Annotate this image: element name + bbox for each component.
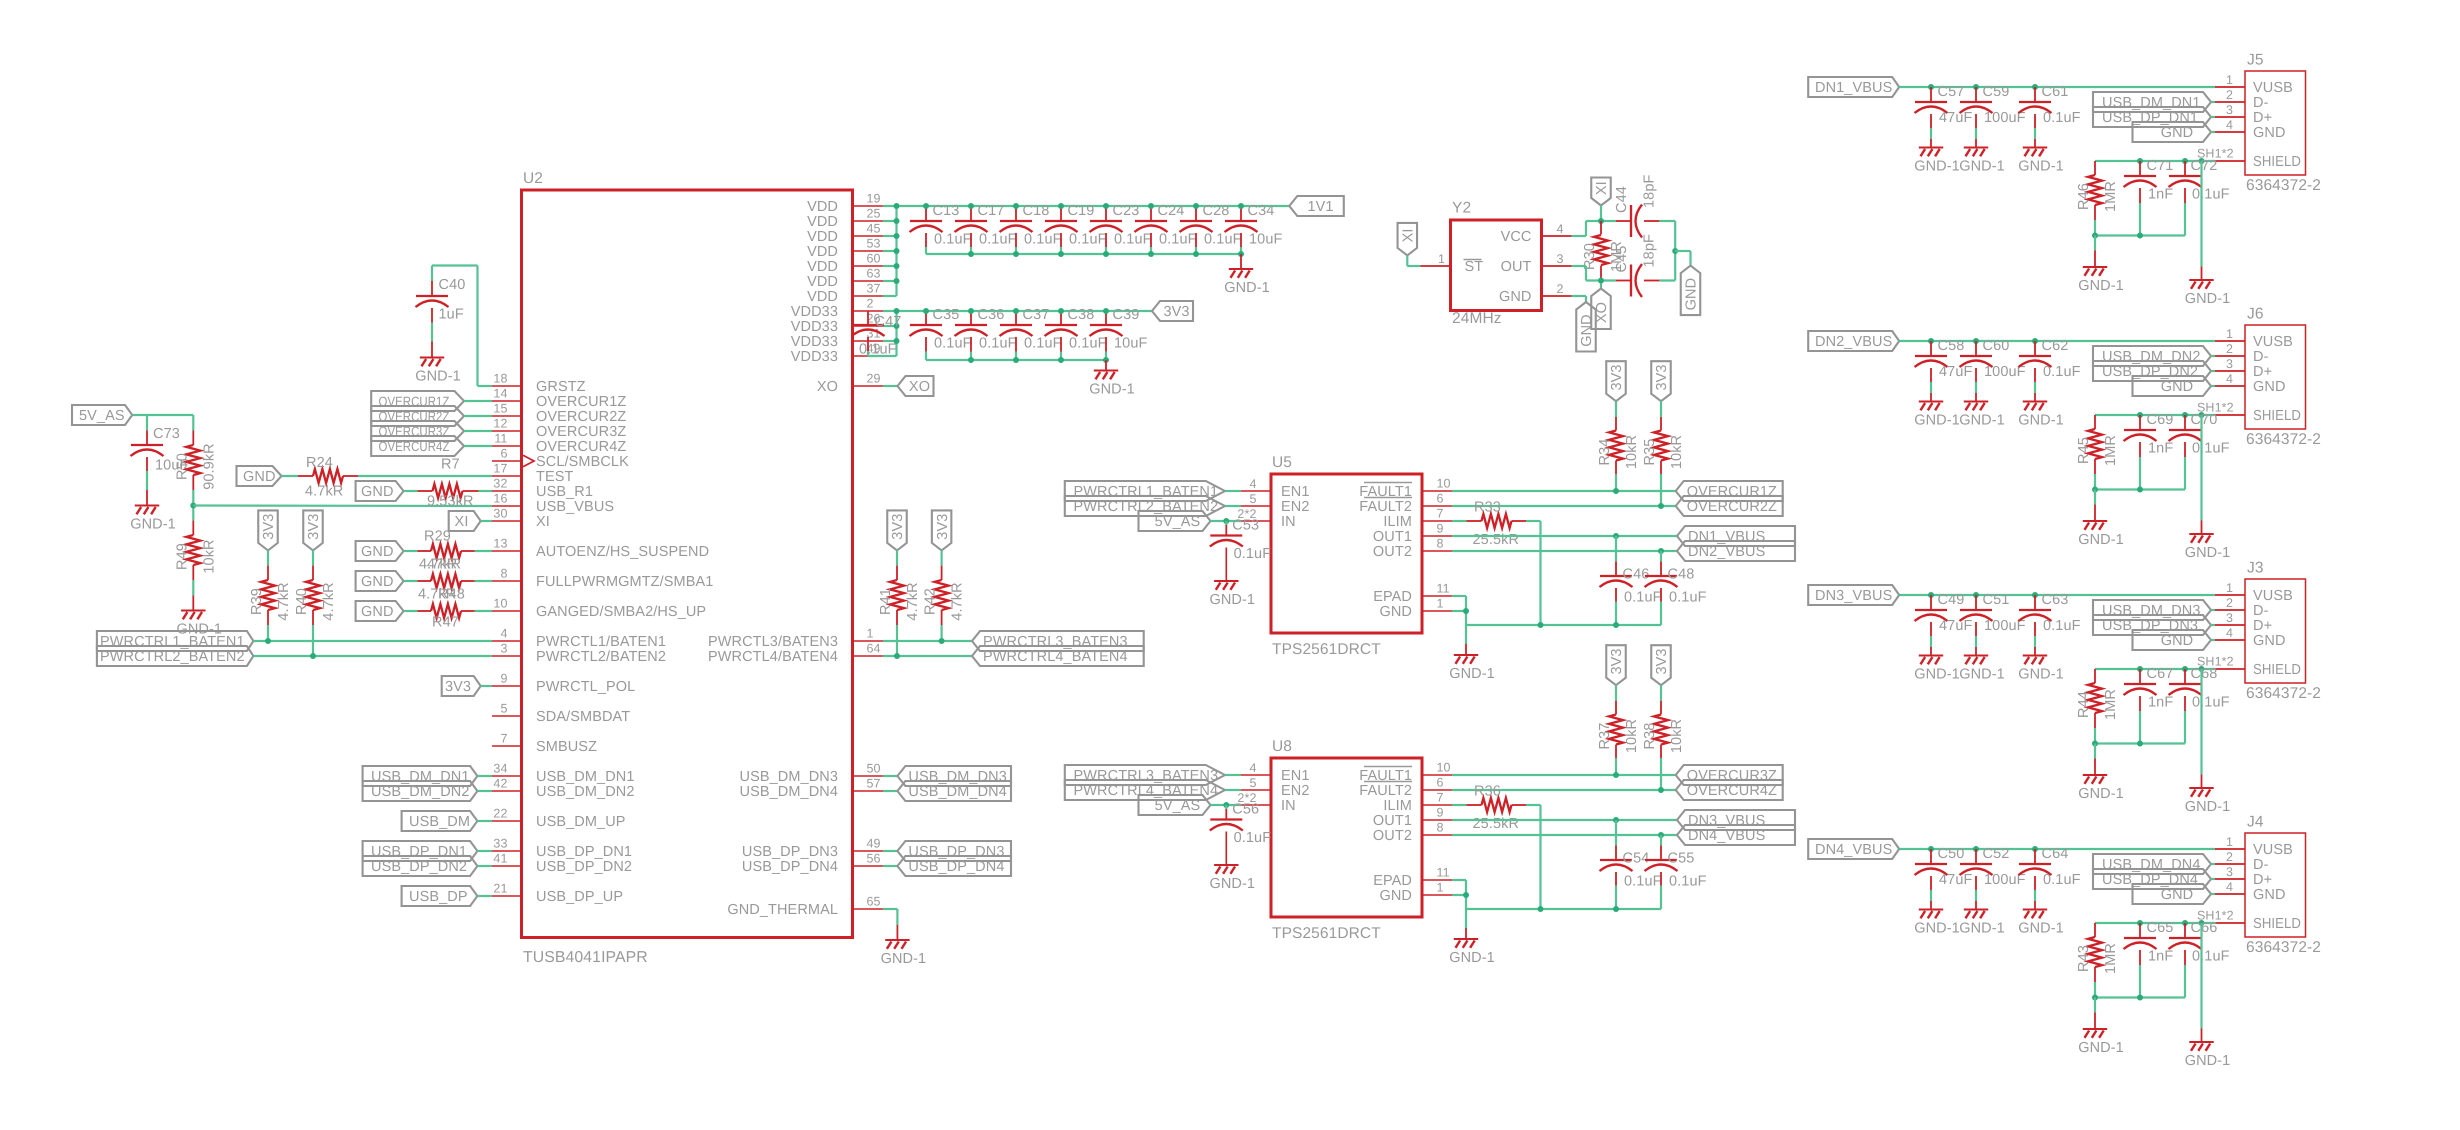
resistor R40 4.7kR <box>294 550 337 625</box>
net label XI vertical above R30 <box>1591 178 1611 206</box>
label overlapping 4.7kR/R48 <box>418 587 465 603</box>
svg-text:C48: C48 <box>1668 567 1695 583</box>
svg-text:3V3: 3V3 <box>1609 364 1625 390</box>
capacitor C47 0.1uF <box>852 311 902 358</box>
svg-text:U5: U5 <box>1272 454 1292 471</box>
svg-text:SHIELD: SHIELD <box>2253 662 2301 678</box>
svg-text:1: 1 <box>2226 581 2233 595</box>
svg-text:USB_DP_DN4: USB_DP_DN4 <box>742 859 838 875</box>
wire USB_VBUS net <box>193 504 492 507</box>
svg-text:63: 63 <box>867 267 881 281</box>
U2 pin 2 VDD33 <box>791 297 883 321</box>
svg-text:DN4_VBUS: DN4_VBUS <box>1688 828 1765 844</box>
svg-text:VDD: VDD <box>807 259 838 275</box>
svg-text:EN1: EN1 <box>1281 484 1310 500</box>
U2 pin 63 VDD <box>807 267 883 291</box>
resistor R30 1MR <box>1582 221 1625 281</box>
ground GND-1 below C50 <box>1914 910 1960 937</box>
svg-text:6: 6 <box>500 447 507 461</box>
svg-text:1: 1 <box>1437 597 1444 611</box>
net label PWRCTRL3_BATEN3 at U8 <box>1065 765 1225 785</box>
svg-text:J6: J6 <box>2247 306 2264 323</box>
capacitor C51 100uF <box>1960 592 2026 654</box>
U2 pin 4 PWRCTL1/BATEN1 <box>492 627 666 651</box>
svg-text:57: 57 <box>867 777 881 791</box>
svg-text:DN2_VBUS: DN2_VBUS <box>1815 334 1892 350</box>
net label GND at J6 <box>2133 376 2212 396</box>
wire PWRCTL2/BATEN2 net <box>253 655 492 657</box>
svg-text:0.1uF: 0.1uF <box>1024 335 1062 351</box>
wire USB_DP_DN3 to pin <box>2211 624 2215 626</box>
svg-text:PWRCTL3/BATEN3: PWRCTL3/BATEN3 <box>708 634 838 650</box>
wire XI flag to pin <box>481 520 492 522</box>
label overlapping values 4.7kR/47kR <box>419 557 461 573</box>
supply flag 3V3 above R40 <box>303 510 323 550</box>
wire DN3_VBUS bus <box>1899 594 2215 596</box>
svg-text:C40: C40 <box>439 277 466 293</box>
svg-text:C35: C35 <box>933 307 960 323</box>
U2 pin 15 OVERCUR2Z <box>492 402 626 426</box>
svg-text:GND-1: GND-1 <box>1914 666 1960 682</box>
capacitor C71 1nF <box>2124 158 2174 236</box>
resistor R38 10kR <box>1642 685 1685 758</box>
svg-text:34: 34 <box>493 762 507 776</box>
capacitor C23 0.1uF <box>1090 203 1152 254</box>
svg-text:OVERCUR4Z: OVERCUR4Z <box>379 439 450 454</box>
svg-text:C46: C46 <box>1623 567 1650 583</box>
svg-text:IN: IN <box>1281 798 1296 814</box>
svg-text:0.1uF: 0.1uF <box>934 335 972 351</box>
svg-text:C73: C73 <box>153 426 180 442</box>
resistor R33 25.5kR <box>1467 500 1527 549</box>
U2 pin 8 FULLPWRMGMTZ/SMBA1 <box>492 567 713 591</box>
svg-text:0.1uF: 0.1uF <box>934 231 972 247</box>
junction dots DN4_VBUS bus <box>1928 846 2038 852</box>
net label DN4_VBUS at J4 <box>1808 839 1899 859</box>
net label GND right of C44 <box>1681 266 1701 316</box>
svg-text:25: 25 <box>867 207 881 221</box>
junction R41/PWRCTL4 <box>894 653 900 659</box>
capacitor C44 18pF <box>1614 175 1659 238</box>
svg-text:C24: C24 <box>1158 203 1185 219</box>
svg-text:C18: C18 <box>1023 203 1050 219</box>
svg-text:USB_DM_DN3: USB_DM_DN3 <box>908 769 1007 785</box>
svg-text:10: 10 <box>1437 477 1451 491</box>
svg-text:R38: R38 <box>1642 723 1658 750</box>
resistor R49 10kR <box>174 521 217 580</box>
U8 pin 4 EN1 <box>1241 761 1310 784</box>
resistor R7 9.53kR <box>418 457 479 510</box>
svg-text:EN1: EN1 <box>1281 768 1310 784</box>
ground GND-1 below U8 <box>1449 939 1495 966</box>
svg-text:R37: R37 <box>1597 723 1613 750</box>
wire C44 right to vertical <box>1659 221 1675 281</box>
svg-text:USB_DP_DN2: USB_DP_DN2 <box>2102 364 2198 380</box>
junction dots DN2_VBUS bus <box>1928 338 2038 344</box>
net label USB_DM_DN2 at J6 <box>2093 346 2211 366</box>
svg-text:R48: R48 <box>438 587 465 603</box>
svg-text:0.1uF: 0.1uF <box>1069 231 1107 247</box>
svg-text:18pF: 18pF <box>1642 175 1658 208</box>
U2 pin 60 VDD <box>807 252 883 276</box>
wire USB_DM_DN4 to pin <box>2211 863 2215 865</box>
svg-text:1MR: 1MR <box>2103 435 2119 466</box>
svg-text:4: 4 <box>500 627 507 641</box>
wire USB_DP_DN1 to pin <box>2211 116 2215 118</box>
svg-text:0.1uF: 0.1uF <box>1069 335 1107 351</box>
svg-text:9: 9 <box>1437 522 1444 536</box>
crystal Y2 24MHz outline <box>1451 200 1542 328</box>
svg-text:4: 4 <box>2226 626 2233 640</box>
svg-text:XO: XO <box>909 379 930 395</box>
svg-text:USB_DM_DN2: USB_DM_DN2 <box>536 784 635 800</box>
wire ILIM to R33 <box>1452 520 1467 522</box>
J6 pin 3 D+ <box>2215 357 2272 380</box>
svg-text:C45: C45 <box>1614 246 1630 273</box>
svg-text:0.1uF: 0.1uF <box>2043 110 2081 126</box>
svg-text:3V3: 3V3 <box>1163 304 1189 320</box>
wire USB_DM_DN3 to pin <box>2211 609 2215 611</box>
net label PWRCTRL4_BATEN4 <box>972 646 1144 666</box>
wire GND flag to resistor y611 <box>404 610 418 612</box>
svg-text:C17: C17 <box>978 203 1005 219</box>
ground GND-1 shield J4 <box>2185 1042 2231 1069</box>
resistor R35 10kR <box>1642 401 1685 474</box>
wire DN1_VBUS net <box>1452 535 1677 537</box>
U2 pin 33 USB_DP_DN1 <box>492 837 632 861</box>
svg-text:USB_DP_DN3: USB_DP_DN3 <box>742 844 838 860</box>
junction R34 <box>1613 488 1619 494</box>
svg-text:C71: C71 <box>2147 158 2174 174</box>
wire C40 to ground <box>431 323 433 357</box>
U2 pin 5 SDA/SMBDAT <box>492 702 630 726</box>
J4 pin 2 D- <box>2215 850 2269 873</box>
junction R40/PWRCTRL2 <box>310 653 316 659</box>
svg-text:VDD: VDD <box>807 289 838 305</box>
svg-text:11: 11 <box>1437 582 1450 596</box>
junction C44/C45 gnd tap <box>1672 248 1678 254</box>
svg-text:8: 8 <box>500 567 507 581</box>
ground GND-1 below C61 <box>2018 148 2064 175</box>
wire R39 to PWRCTRL1 net <box>267 625 269 641</box>
wire USB_DM to pin <box>477 820 492 822</box>
svg-text:2: 2 <box>2226 342 2233 356</box>
svg-text:R35: R35 <box>1642 439 1658 466</box>
svg-text:ST: ST <box>1465 259 1484 275</box>
J6 pin SH1*2 SHIELD <box>2197 401 2301 425</box>
svg-text:0.1uF: 0.1uF <box>1669 590 1707 606</box>
U8 pin 1 GND <box>1379 881 1452 905</box>
svg-text:Y2: Y2 <box>1452 200 1471 217</box>
wire SHIELD net J4 <box>2095 922 2215 924</box>
svg-text:R29: R29 <box>424 529 451 545</box>
U2 pin 41 USB_DP_DN2 <box>492 852 632 876</box>
svg-text:TPS2561DRCT: TPS2561DRCT <box>1272 641 1381 658</box>
ground GND-1 below C62 <box>2018 402 2064 429</box>
svg-text:J5: J5 <box>2247 52 2264 69</box>
net label USB_DM_DN3 at J3 <box>2093 600 2211 620</box>
U5 pin 5 EN2 <box>1241 492 1310 515</box>
svg-text:29: 29 <box>867 372 881 386</box>
svg-text:USB_DM_DN3: USB_DM_DN3 <box>740 769 839 785</box>
svg-text:15: 15 <box>493 402 507 416</box>
svg-text:ILIM: ILIM <box>1383 514 1412 530</box>
svg-text:OUT2: OUT2 <box>1373 828 1412 844</box>
svg-text:2: 2 <box>2226 850 2233 864</box>
svg-text:GND-1: GND-1 <box>2078 278 2124 294</box>
net label DN2_VBUS at J6 <box>1808 331 1899 351</box>
wire R24 to TEST pin <box>358 475 492 477</box>
svg-text:EN2: EN2 <box>1281 499 1310 515</box>
junction GND pin U8 <box>1463 892 1469 898</box>
svg-text:0.1uF: 0.1uF <box>2043 364 2081 380</box>
svg-text:R40: R40 <box>294 588 310 615</box>
svg-text:1: 1 <box>1438 252 1445 266</box>
wire DN4_VBUS bus <box>1899 848 2215 850</box>
svg-text:10kR: 10kR <box>201 539 217 573</box>
U2 pin 29 XO <box>817 372 883 396</box>
resistor R42 4.7kR <box>923 550 966 625</box>
svg-text:5V_AS: 5V_AS <box>1155 798 1201 814</box>
svg-text:VDD33: VDD33 <box>791 319 838 335</box>
svg-text:VDD: VDD <box>807 274 838 290</box>
svg-text:GND: GND <box>1579 314 1595 347</box>
svg-text:USB_DP_DN3: USB_DP_DN3 <box>2102 618 2198 634</box>
svg-text:0.1uF: 0.1uF <box>2192 694 2230 710</box>
svg-text:C51: C51 <box>1983 592 2010 608</box>
svg-text:PWRCTRL4_BATEN4: PWRCTRL4_BATEN4 <box>983 649 1128 665</box>
svg-text:4: 4 <box>2226 880 2233 894</box>
svg-text:7: 7 <box>1437 791 1444 805</box>
svg-text:6: 6 <box>1437 776 1444 790</box>
svg-text:IN: IN <box>1281 514 1296 530</box>
capacitor C62 0.1uF <box>2019 338 2081 400</box>
wire VDD caps bottom bus <box>926 253 1241 255</box>
wire C73 to ground <box>146 471 148 505</box>
junction C48 tap <box>1658 548 1664 554</box>
svg-text:USB_DM_DN2: USB_DM_DN2 <box>2102 349 2201 365</box>
svg-text:GND-1: GND-1 <box>415 368 461 384</box>
svg-text:GND: GND <box>2253 887 2286 903</box>
svg-text:3V3: 3V3 <box>445 679 471 695</box>
resistor R46 1MR <box>2076 161 2119 220</box>
resistor R43 1MR <box>2076 923 2119 982</box>
wire GND label to pin <box>2211 893 2215 895</box>
svg-text:OVERCUR3Z: OVERCUR3Z <box>1687 768 1777 784</box>
svg-text:90.9kR: 90.9kR <box>201 443 217 490</box>
resistor R45 1MR <box>2076 415 2119 474</box>
svg-text:3V3: 3V3 <box>261 514 277 540</box>
J4 pin 4 GND <box>2215 880 2286 903</box>
svg-text:3V3: 3V3 <box>935 514 951 540</box>
net label OVERCUR2Z at U2 <box>371 406 492 426</box>
svg-text:19: 19 <box>867 192 881 206</box>
wire R50 to R49 node <box>192 490 194 521</box>
svg-text:OUT2: OUT2 <box>1373 544 1412 560</box>
svg-text:GND: GND <box>2253 125 2286 141</box>
svg-text:PWRCTRL2_BATEN2: PWRCTRL2_BATEN2 <box>100 649 245 665</box>
capacitor C73 10uF <box>131 426 189 474</box>
svg-text:PWRCTL_POL: PWRCTL_POL <box>536 679 635 695</box>
net label OVERCUR2Z <box>1676 496 1783 516</box>
svg-text:GND-1: GND-1 <box>2185 291 2231 307</box>
U2 pin 19 VDD <box>807 192 883 216</box>
svg-text:R47: R47 <box>432 615 459 631</box>
svg-text:J4: J4 <box>2247 814 2264 831</box>
svg-text:TPS2561DRCT: TPS2561DRCT <box>1272 925 1381 942</box>
svg-text:5V_AS: 5V_AS <box>1155 514 1201 530</box>
capacitor C55 0.1uF <box>1645 835 1707 909</box>
svg-text:GND: GND <box>243 469 276 485</box>
connector J6 6364372-2 outline <box>2245 306 2321 449</box>
svg-text:C59: C59 <box>1983 84 2010 100</box>
net label PWRCTRL2_BATEN2 at U5 <box>1065 496 1225 516</box>
junction IN/C bypass <box>1223 802 1229 808</box>
wire DN2_VBUS net <box>1452 550 1677 552</box>
wire USB_DP_DN3 to label <box>883 850 897 852</box>
capacitor C65 1nF <box>2124 920 2174 998</box>
U2 pin 56 USB_DP_DN4 <box>742 852 883 876</box>
net label XI at U2 <box>449 511 481 531</box>
U2 pin 49 USB_DP_DN3 <box>742 837 883 861</box>
svg-text:OVERCUR4Z: OVERCUR4Z <box>536 439 626 455</box>
U5 pin 1 GND <box>1379 597 1452 621</box>
junction dots VDD caps top <box>923 203 1244 209</box>
label R47 <box>432 615 459 631</box>
wire VDD33 pin bus <box>868 311 1152 356</box>
svg-text:GND-1: GND-1 <box>2018 666 2064 682</box>
svg-text:60: 60 <box>867 252 881 266</box>
wire R7 to USB_R1 pin <box>479 490 493 492</box>
wire DN1_VBUS bus <box>1899 86 2215 88</box>
wire XO node <box>1572 266 1617 289</box>
svg-text:3: 3 <box>500 642 507 656</box>
svg-text:SCL/SMBCLK: SCL/SMBCLK <box>536 454 629 470</box>
svg-text:4: 4 <box>1249 761 1256 775</box>
wire shield bottom bus J4 <box>2095 996 2185 998</box>
wire R34 to fault net <box>1615 474 1617 491</box>
svg-text:47kR: 47kR <box>427 557 461 573</box>
svg-text:GND: GND <box>2161 633 2194 649</box>
net label 5V_AS at U5 <box>1139 511 1211 531</box>
wire shield bottom bus J6 <box>2095 488 2185 490</box>
svg-text:0.1uF: 0.1uF <box>979 231 1017 247</box>
wire USB_DP_DN4 to label <box>883 865 897 867</box>
svg-text:1: 1 <box>2226 73 2233 87</box>
svg-text:USB_DM_DN3: USB_DM_DN3 <box>2102 603 2201 619</box>
U2 pin 65 GND_THERMAL <box>727 895 883 919</box>
svg-text:R7: R7 <box>441 457 460 473</box>
svg-text:4: 4 <box>1557 222 1564 236</box>
svg-text:GND-1: GND-1 <box>1224 280 1270 296</box>
wire USB_DP to pin <box>477 895 492 897</box>
svg-text:45: 45 <box>867 222 881 236</box>
svg-text:GND-1: GND-1 <box>2078 532 2124 548</box>
svg-text:USB_DM_DN1: USB_DM_DN1 <box>536 769 635 785</box>
svg-text:VDD: VDD <box>807 199 838 215</box>
svg-text:DN1_VBUS: DN1_VBUS <box>1815 80 1892 96</box>
net label USB_DP_DN2 <box>363 856 478 876</box>
Y2 pin 4 VCC <box>1501 222 1572 245</box>
wire R43 gnd drop <box>2094 998 2096 1029</box>
wire shield gnd drop J4 <box>2200 923 2202 1041</box>
capacitor C68 0.1uF <box>2169 666 2230 744</box>
svg-text:GND_THERMAL: GND_THERMAL <box>727 902 838 918</box>
junction R38 <box>1658 787 1664 793</box>
svg-text:J3: J3 <box>2247 560 2264 577</box>
svg-text:1MR: 1MR <box>2103 181 2119 212</box>
resistor R34 10kR <box>1597 401 1640 474</box>
net label USB_DM_DN4 <box>897 781 1011 801</box>
svg-text:2: 2 <box>2226 596 2233 610</box>
resistor R47 4.7kR <box>418 604 475 618</box>
resistor R37 10kR <box>1597 685 1640 758</box>
svg-text:49: 49 <box>867 837 881 851</box>
capacitor C56 0.1uF <box>1210 802 1271 865</box>
svg-text:21: 21 <box>493 882 507 896</box>
svg-text:R34: R34 <box>1597 439 1613 466</box>
svg-text:5: 5 <box>1249 492 1256 506</box>
supply flag 3V3 above R39 <box>258 510 278 550</box>
capacitor C50 47uF <box>1915 846 1973 908</box>
svg-text:C39: C39 <box>1113 307 1140 323</box>
wire GND flag to R24 <box>282 475 299 477</box>
svg-text:16: 16 <box>493 492 507 506</box>
net label PWRCTRL2_BATEN2 <box>97 646 254 666</box>
svg-text:R46: R46 <box>2076 183 2092 210</box>
wire gnd bus U5 <box>1466 624 1661 626</box>
U2 pin 22 USB_DM_UP <box>492 807 626 831</box>
wire R45 to bottom bus <box>2094 474 2096 490</box>
svg-text:AUTOENZ/HS_SUSPEND: AUTOENZ/HS_SUSPEND <box>536 544 709 560</box>
net label PWRCTRL1_BATEN1 at U5 <box>1065 481 1225 501</box>
supply flag 3V3 above R41 <box>887 510 907 550</box>
supply flag 3V3 above R37 <box>1606 645 1626 685</box>
ground GND-1 below R45 <box>2078 521 2124 548</box>
svg-text:SHIELD: SHIELD <box>2253 408 2301 424</box>
svg-text:DN4_VBUS: DN4_VBUS <box>1815 842 1892 858</box>
svg-text:1nF: 1nF <box>2148 186 2173 202</box>
capacitor C19 0.1uF <box>1045 203 1107 254</box>
svg-text:VUSB: VUSB <box>2253 588 2293 604</box>
svg-text:XI: XI <box>1594 181 1610 195</box>
junction XO node <box>1598 278 1604 284</box>
svg-text:10: 10 <box>493 597 507 611</box>
net label XO vertical below R30 <box>1591 289 1611 330</box>
wire DN4_VBUS net <box>1452 834 1677 836</box>
svg-text:D-: D- <box>2253 603 2269 619</box>
svg-text:SHIELD: SHIELD <box>2253 154 2301 170</box>
svg-text:6364372-2: 6364372-2 <box>2246 177 2321 194</box>
wire R40 to PWRCTRL2 net <box>312 625 314 656</box>
svg-text:30: 30 <box>493 507 507 521</box>
svg-text:R42: R42 <box>923 588 939 615</box>
capacitor C67 1nF <box>2124 666 2174 744</box>
capacitor C72 0.1uF <box>2169 158 2230 236</box>
label R29 <box>424 529 451 545</box>
J3 pin 4 GND <box>2215 626 2286 649</box>
U2 pin 16 USB_VBUS <box>492 492 614 516</box>
wire SHIELD net J6 <box>2095 414 2215 416</box>
wire SHIELD net J5 <box>2095 160 2215 162</box>
svg-text:56: 56 <box>867 852 881 866</box>
svg-text:GND-1: GND-1 <box>881 951 927 967</box>
wire XO pin <box>883 385 898 387</box>
svg-text:1: 1 <box>1437 881 1444 895</box>
capacitor C36 0.1uF <box>955 307 1017 360</box>
svg-text:4: 4 <box>2226 372 2233 386</box>
wire GND flag to R7 <box>404 490 418 492</box>
